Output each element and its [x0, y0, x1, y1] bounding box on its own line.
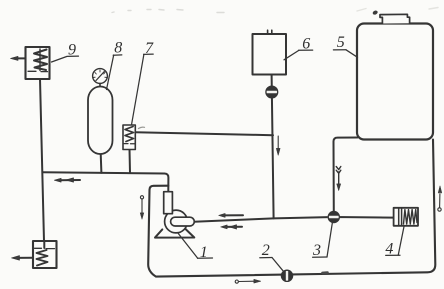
valve 3 junction — [328, 211, 339, 222]
wire: arrow out of valve 9 — [11, 56, 26, 60]
faint scan marks top — [112, 8, 438, 13]
accumulator 8 — [88, 87, 113, 155]
flow arrow right on bottom line — [235, 279, 261, 283]
tank 6 — [253, 30, 287, 74]
svg-text:4: 4 — [385, 241, 393, 258]
pressure gauge on accumulator — [93, 69, 108, 87]
pump 1 outlet — [171, 217, 195, 226]
label 8 leader — [107, 55, 114, 90]
wire: valve 3 riser and pipe to tank 5 bottom-left — [334, 138, 358, 215]
svg-text:5: 5 — [337, 34, 345, 51]
tank 5 — [357, 10, 433, 140]
wire: arrow out of bottom-left valve — [12, 256, 34, 261]
label 6 leader — [284, 50, 299, 59]
svg-text:3: 3 — [312, 242, 321, 259]
wire: pump suction line from pump to throttle 4 — [194, 217, 394, 222]
wire: valve 7 stem — [129, 149, 132, 173]
svg-text:9: 9 — [68, 41, 76, 58]
wire: tank 6 down pipe through valve to suction line — [272, 75, 274, 219]
wire: vertical from valve 9 down to bottom-left valve — [40, 79, 44, 241]
label 5 leader — [346, 50, 358, 58]
svg-text:8: 8 — [114, 40, 122, 57]
label 2 leader — [272, 258, 283, 271]
label 9 leader — [52, 56, 79, 62]
label 4 leader — [398, 227, 404, 256]
svg-text:1: 1 — [200, 244, 208, 261]
flow arrow down on valve-3 riser — [336, 167, 341, 191]
svg-text:6: 6 — [302, 36, 310, 53]
flow arrows on suction line — [219, 213, 244, 229]
label 3 leader — [327, 222, 333, 257]
pump 1 intake pipe — [164, 192, 173, 214]
label 7 leader — [132, 54, 144, 125]
flow arrow up on right riser — [438, 186, 442, 211]
flow arrows on top line — [54, 178, 80, 182]
flow arrow down left of pump — [140, 196, 144, 220]
throttle valve 4 — [394, 208, 418, 226]
wire: accumulator stem — [100, 154, 103, 173]
flow arrow down on center riser — [276, 136, 280, 156]
wire: top horizontal line with corner down to pump intake — [43, 172, 169, 191]
wire: valve 7 output line to center riser — [136, 132, 274, 135]
shut-off valve under tank 6 — [266, 86, 278, 98]
pump 1 casing — [165, 210, 188, 233]
speck on bottom line — [323, 271, 328, 274]
bottom-left relief valve — [33, 241, 57, 268]
svg-text:7: 7 — [145, 40, 154, 57]
shut-off valve 2 — [281, 270, 292, 281]
svg-text:2: 2 — [262, 242, 270, 259]
valve 7 — [123, 125, 145, 150]
wire: branch from pump intake riser to left loop, down, bottom line, right riser to tank 5 — [148, 140, 435, 277]
pump 1 base — [155, 229, 194, 238]
label 1 leader — [178, 233, 198, 259]
relief valve 9 — [26, 47, 50, 79]
